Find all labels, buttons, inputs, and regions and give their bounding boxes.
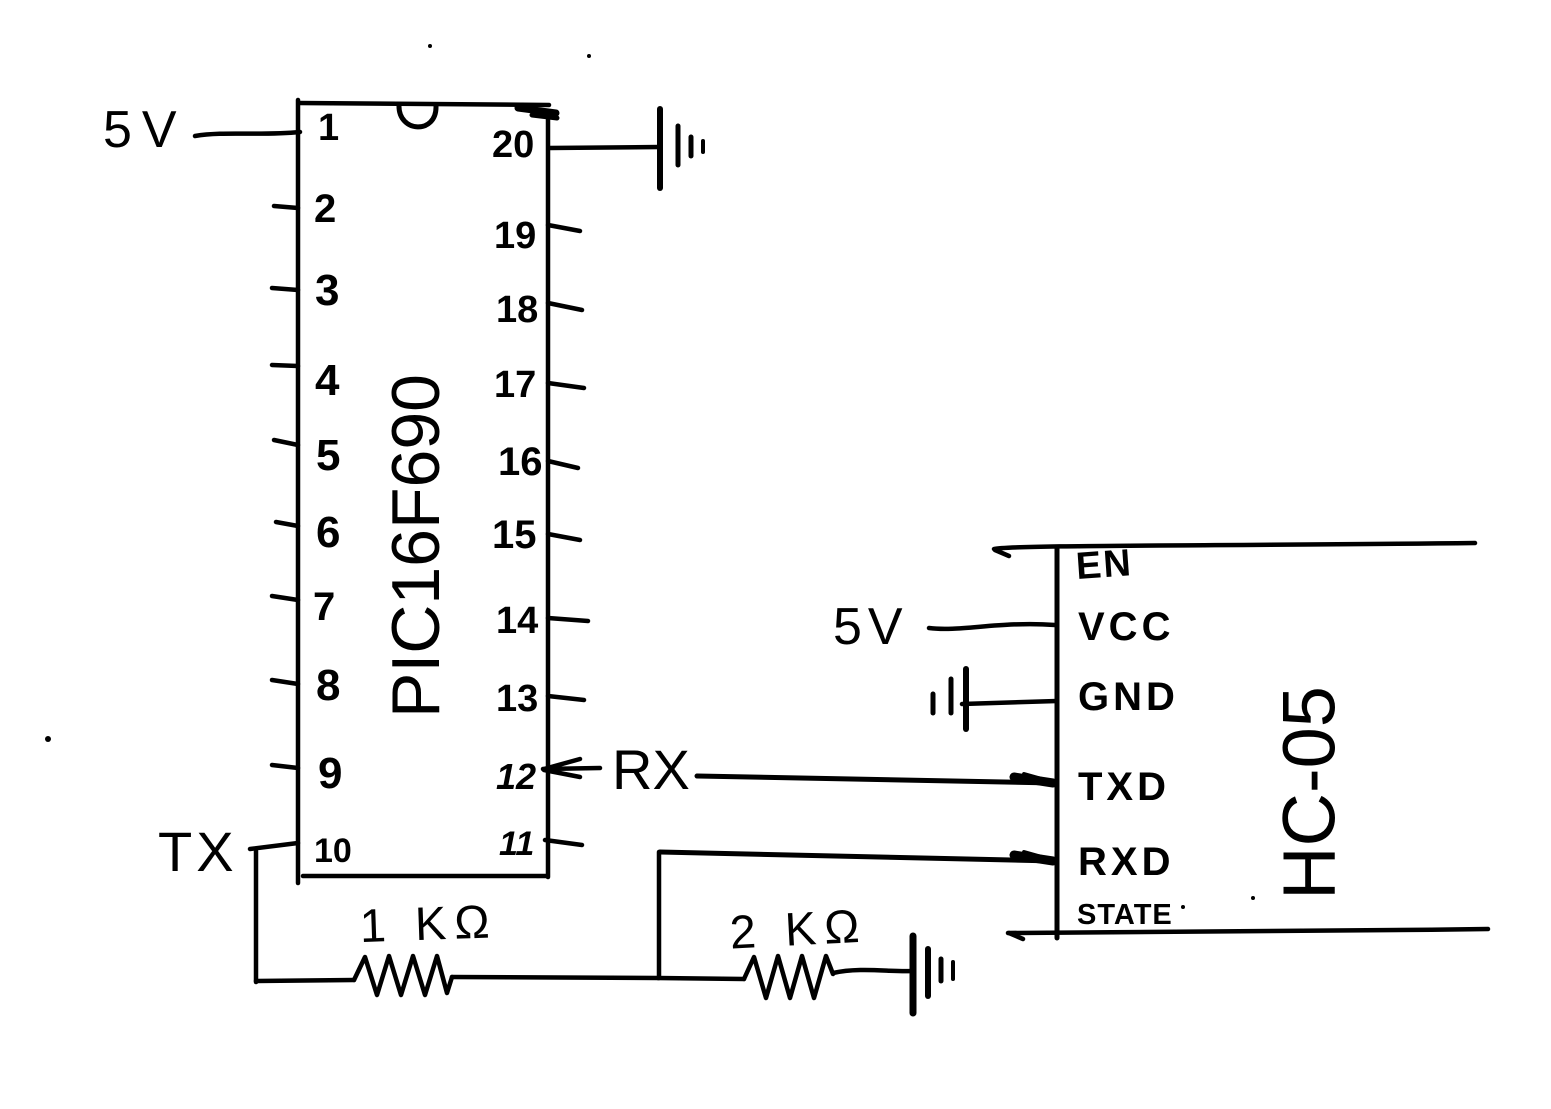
svg-text:18: 18 [496, 289, 538, 331]
svg-text:GND: GND [1078, 675, 1179, 719]
svg-text:RX: RX [612, 738, 690, 801]
svg-text:3: 3 [315, 266, 339, 315]
svg-text:11: 11 [499, 825, 534, 863]
svg-text:8: 8 [316, 661, 340, 710]
svg-text:20: 20 [492, 124, 534, 166]
svg-text:VCC: VCC [1078, 605, 1174, 649]
svg-text:1 KΩ: 1 KΩ [359, 894, 498, 952]
svg-text:19: 19 [494, 215, 536, 257]
svg-text:9: 9 [318, 749, 342, 798]
svg-text:4: 4 [315, 356, 340, 405]
svg-text:TX: TX [158, 820, 238, 883]
svg-text:15: 15 [492, 513, 537, 557]
svg-text:6: 6 [316, 508, 340, 557]
svg-text:5V: 5V [833, 598, 909, 656]
svg-text:10: 10 [314, 832, 352, 870]
svg-text:16: 16 [498, 440, 543, 484]
svg-text:TXD: TXD [1078, 765, 1170, 809]
svg-text:2 KΩ: 2 KΩ [728, 899, 868, 959]
svg-text:STATE: STATE [1077, 899, 1173, 931]
svg-text:5: 5 [316, 431, 340, 480]
svg-text:12: 12 [496, 756, 536, 797]
svg-text:PIC16F690: PIC16F690 [378, 374, 454, 718]
svg-text:14: 14 [496, 600, 538, 642]
svg-text:17: 17 [494, 364, 536, 406]
svg-text:5V: 5V [103, 101, 187, 159]
svg-text:EN: EN [1075, 542, 1135, 588]
svg-text:RXD: RXD [1078, 840, 1174, 884]
svg-text:13: 13 [496, 678, 538, 720]
svg-text:HC-05: HC-05 [1268, 686, 1351, 900]
svg-text:1: 1 [318, 107, 339, 149]
svg-text:2: 2 [314, 187, 336, 231]
svg-text:7: 7 [313, 585, 335, 629]
